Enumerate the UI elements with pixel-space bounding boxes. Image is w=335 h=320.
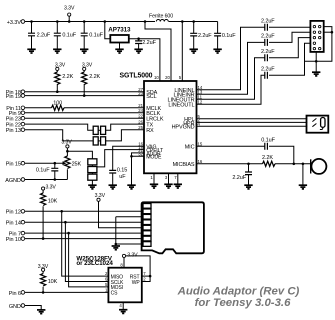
svg-text:2: 2 (143, 277, 146, 282)
wire MIC line (197, 145, 265, 147)
capacitor 2.2uF (VDDA bypass) (190, 22, 212, 50)
wire LINEINL to cap (197, 27, 265, 89)
ground (115, 49, 123, 53)
wire HPL to jack (197, 118, 308, 120)
resistor 10K flash CS pullup (41, 271, 58, 292)
wire MICBIAS (197, 163, 311, 165)
svg-text:SGTL5000: SGTL5000 (120, 73, 153, 80)
wire LINEOUTL to cap (197, 75, 265, 104)
capacitor 2.2uF (rail bypass 1) (28, 22, 51, 50)
svg-text:Pin 15: Pin 15 (6, 162, 21, 168)
capacitor 2.2uF (mic filter) (232, 164, 252, 185)
svg-text:22: 22 (138, 113, 143, 118)
ground (150, 184, 158, 188)
wire SD ground pad3 (116, 217, 143, 246)
junction (149, 275, 152, 278)
wire SGTL pin 20 supply (145, 22, 171, 82)
junction (137, 37, 140, 40)
svg-text:10: 10 (154, 75, 159, 80)
resistor 2.2K SCL pullup (82, 71, 101, 96)
svg-text:2.2uF: 2.2uF (261, 66, 275, 72)
svg-text:2.2uF: 2.2uF (232, 175, 246, 181)
junction (54, 178, 57, 181)
svg-text:1: 1 (150, 175, 153, 180)
svg-text:Pin 13: Pin 13 (6, 128, 21, 134)
svg-text:Audio Adaptor (Rev C): Audio Adaptor (Rev C) (177, 286, 300, 298)
wire Pin14 SCLK to SD (25, 221, 143, 223)
svg-text:0.1uF: 0.1uF (62, 33, 76, 39)
wire ADDR (132, 153, 145, 156)
connector J line in/out header (310, 21, 323, 52)
supply 3.3V for SCL pullup (82, 63, 93, 71)
potentiometer 25K (65, 156, 82, 180)
ground (109, 185, 117, 189)
svg-text:12: 12 (198, 99, 203, 104)
solder pads RX row (93, 137, 105, 145)
svg-text:24: 24 (138, 108, 143, 113)
svg-text:AGND: AGND (5, 178, 21, 184)
wire Pin10 SD chip select (25, 238, 143, 240)
node Pin 14 (6, 220, 25, 226)
node Pin 13 (6, 128, 25, 134)
node Pin 12 (6, 210, 25, 216)
wire Pin15 to pot wiper (25, 162, 63, 164)
junction (293, 163, 296, 166)
SGTL right pin names (167, 88, 194, 168)
wire cap2 to connector row2 (269, 32, 310, 42)
capacitor 0.1uF (VDDA bypass) (214, 22, 236, 50)
junction (302, 163, 305, 166)
wire connector shield to ground (315, 53, 317, 72)
junction (60, 210, 63, 213)
svg-text:0.1uF: 0.1uF (36, 167, 50, 173)
wire MODE to ground (132, 156, 145, 185)
wire TX pads to SGTL TX (105, 124, 144, 130)
svg-text:23: 23 (138, 91, 143, 96)
svg-text:uF: uF (119, 174, 126, 180)
wire SD ground pad8 (116, 243, 143, 245)
supply 3.3V for SD card (95, 193, 106, 202)
svg-text:2.2K: 2.2K (89, 74, 100, 80)
svg-text:2.2uF: 2.2uF (142, 40, 156, 46)
ground (299, 185, 307, 189)
connector SD card (142, 202, 204, 253)
svg-text:CS: CS (111, 291, 119, 297)
svg-text:HPVGND: HPVGND (172, 125, 195, 131)
svg-text:MODE: MODE (146, 155, 162, 161)
junction (67, 232, 70, 235)
svg-text:WP: WP (132, 280, 141, 286)
svg-text:Ferrite 600: Ferrite 600 (149, 14, 173, 20)
capacitor 0.1uF (rail bypass 3) (81, 22, 104, 50)
svg-text:0.15: 0.15 (117, 168, 127, 174)
ground (53, 49, 61, 53)
ground (112, 246, 120, 250)
svg-text:26: 26 (138, 119, 143, 124)
svg-text:RX: RX (146, 128, 154, 134)
capacitor 2.2uF line coupling 4 (261, 66, 275, 78)
wire Pin18 to SDA (25, 91, 144, 93)
wire connector ground return (305, 27, 332, 62)
wire 3.3V rail (25, 21, 218, 23)
svg-text:100: 100 (53, 101, 62, 107)
wire HPR to jack (197, 121, 308, 123)
junction (54, 162, 57, 165)
junction (331, 31, 334, 34)
svg-text:Pin 14: Pin 14 (6, 221, 21, 227)
svg-text:10K: 10K (48, 279, 58, 285)
svg-text:0.1uF: 0.1uF (89, 33, 103, 39)
node GND (9, 304, 25, 310)
svg-text:Pin 10: Pin 10 (6, 237, 21, 243)
node Pin 9 (9, 111, 25, 117)
flash pin numbers (105, 262, 146, 308)
svg-text:2.2uF: 2.2uF (261, 19, 275, 25)
wire Pin23 to LRCLK (25, 117, 144, 119)
ground (190, 49, 198, 53)
wire Pin7 MOSI to SD (25, 232, 143, 234)
svg-text:3: 3 (165, 175, 168, 180)
wire mic return to ground (302, 164, 304, 185)
svg-text:8: 8 (120, 262, 123, 267)
svg-text:Pin 6: Pin 6 (9, 291, 21, 297)
wire Pin22 to TX pads (25, 124, 94, 130)
solder pads ADDR select stack (88, 159, 97, 185)
ground (174, 184, 182, 188)
junction (42, 237, 45, 240)
svg-text:for Teensy 3.0-3.6: for Teensy 3.0-3.6 (195, 297, 291, 309)
ground (244, 185, 252, 189)
ground (213, 49, 221, 53)
wire cap3 to connector row3 (269, 38, 310, 58)
svg-text:2.2uF: 2.2uF (37, 33, 51, 39)
wire VAG (113, 146, 144, 170)
svg-text:3.3V: 3.3V (38, 264, 49, 270)
resistor 2.2K (mic bias) (262, 155, 275, 167)
svg-text:32: 32 (138, 152, 143, 157)
junction (247, 163, 250, 166)
title text (177, 286, 300, 309)
capacitor 0.1uF (rail bypass 2) (54, 22, 77, 50)
supply 3.3V for flash CS pullup (38, 264, 49, 272)
ground (164, 184, 172, 188)
SGTL right pin numbers (198, 85, 203, 164)
SGTL left pin numbers (138, 87, 143, 157)
supply 3.3V for SD CS pullup (42, 185, 57, 191)
wire cap1 to connector row1 (269, 26, 310, 28)
capacitor 2.2uF line coupling 3 (261, 49, 275, 61)
svg-text:0.1uF: 0.1uF (261, 137, 275, 143)
wire 3.3V to ADDR pads (67, 151, 92, 159)
node Pin 15 (6, 161, 25, 167)
resistor 2.2K SDA pullup (55, 71, 74, 92)
capacitor 2.2uF (regulator output) (135, 39, 157, 49)
wire CPFILT to pads (97, 150, 144, 167)
svg-text:2.2K: 2.2K (262, 155, 273, 161)
resistor 10K SD CS pullup (41, 190, 58, 239)
node Pin 6 (9, 291, 25, 297)
svg-text:2.2uF: 2.2uF (198, 33, 212, 39)
junction (83, 94, 86, 97)
ground (88, 185, 96, 189)
node +3.3V input pin (7, 20, 25, 26)
svg-text:3.3V: 3.3V (46, 185, 57, 191)
supply 3.3V symbol on rail (64, 5, 75, 21)
wire connector row2 ground return (324, 31, 332, 33)
SGTL top pin numbers 10 20 5 (154, 75, 182, 80)
wire AGND (25, 179, 68, 181)
node AGND (5, 178, 24, 184)
ground (127, 185, 135, 189)
microphone MK1 (311, 159, 327, 174)
svg-text:10K: 10K (48, 199, 58, 205)
junction dots on rail (30, 20, 195, 23)
inductor Ferrite 600 (149, 14, 173, 22)
SGTL bottom pin 7 (174, 173, 178, 184)
wire HPVGND to jack (197, 125, 308, 127)
svg-text:2.2uF: 2.2uF (261, 49, 275, 55)
ground (37, 310, 45, 314)
node Pin 18 (6, 90, 25, 96)
ground (27, 49, 35, 53)
wire SD VDD (99, 201, 144, 227)
wire LINEOUTR to cap (197, 58, 265, 100)
wire SGTL pin 5 supply (181, 22, 183, 82)
svg-text:7: 7 (174, 175, 177, 180)
wire 3.3V to RST WP (126, 256, 151, 282)
svg-text:3.3V: 3.3V (64, 5, 75, 11)
wire MISO branch to flash (62, 211, 109, 276)
wire Pin6 flash CS (25, 291, 109, 293)
supply 3.3V for SDA pullup (55, 63, 66, 71)
regulator U AP7313 (105, 22, 131, 50)
wire GND (25, 306, 42, 310)
svg-text:GND: GND (9, 304, 21, 310)
wire LINEINR to cap (197, 42, 265, 94)
svg-text:7: 7 (143, 271, 146, 276)
solder pads TX row (93, 126, 105, 134)
junction (315, 60, 318, 63)
ground (312, 72, 320, 76)
supply 3.3V for volume pot (61, 140, 72, 156)
node Pin 11 (6, 106, 24, 112)
capacitor 0.1uF (volume filter) (36, 163, 58, 179)
svg-text:5: 5 (179, 75, 182, 80)
svg-text:AP7313: AP7313 (108, 26, 131, 33)
node Pin 7 (9, 231, 25, 237)
SGTL bottom pin 1 (150, 173, 154, 184)
junction (115, 243, 118, 246)
ground (119, 310, 127, 314)
junction (56, 90, 59, 93)
ground (80, 49, 88, 53)
wire cap4 to connector row4 (269, 43, 310, 75)
capacitor 0.15uF (VAG) (109, 168, 127, 185)
capacitor 0.1uF (mic coupling) (261, 137, 275, 149)
wire Pin13 to RX pads (25, 130, 94, 141)
svg-text:Pin 12: Pin 12 (6, 210, 21, 216)
junction (42, 291, 45, 294)
svg-text:25: 25 (138, 125, 143, 130)
svg-text:25K: 25K (72, 162, 82, 168)
connector headphone jack (307, 116, 329, 133)
op-amp U1 SGTL5000 (120, 73, 197, 174)
svg-text:16: 16 (198, 159, 203, 164)
svg-text:15: 15 (198, 141, 203, 146)
svg-text:MIC: MIC (185, 145, 195, 151)
supply 3.3V for flash (122, 253, 138, 259)
wire Pin19 to SCL (25, 95, 144, 97)
wire mic cap to bias junction (269, 146, 294, 164)
node Pin 10 (6, 237, 25, 243)
junction (64, 221, 67, 224)
svg-text:2.2K: 2.2K (62, 74, 73, 80)
node Pin 19 (6, 94, 25, 100)
SGTL bottom pin 3 (165, 173, 169, 184)
svg-text:2.2uF: 2.2uF (261, 34, 275, 40)
wire SCLK branch to flash (65, 222, 108, 281)
svg-text:4: 4 (119, 303, 122, 308)
wire RST (142, 275, 150, 277)
wire Pin9 to BCLK (25, 112, 144, 114)
wire 3.3V to flash pin8 (123, 258, 125, 268)
svg-text:20: 20 (165, 75, 170, 80)
svg-text:3.3V: 3.3V (95, 193, 106, 199)
ground (134, 49, 142, 53)
junction (66, 150, 69, 153)
wiper arrow (63, 161, 67, 165)
memory U2 W25Q128FV (76, 255, 141, 302)
svg-text:LINEOUTL: LINEOUTL (168, 103, 194, 109)
svg-text:+3.3V: +3.3V (7, 20, 21, 26)
svg-text:SCL: SCL (146, 94, 156, 100)
resistor 100 (MCLK series) (25, 101, 144, 111)
wire Pin12 MISO to SD (25, 210, 143, 212)
svg-text:Pin 19: Pin 19 (6, 94, 21, 100)
wire AP7313 output to SGTL pin 10 (129, 39, 160, 81)
svg-text:0.1uF: 0.1uF (222, 33, 236, 39)
svg-text:MICBIAS: MICBIAS (173, 162, 195, 168)
capacitor 2.2uF line coupling 1 (261, 19, 275, 31)
capacitor 2.2uF line coupling 2 (261, 34, 275, 46)
wire MOSI branch to flash (69, 233, 109, 287)
SGTL left pin names (146, 90, 164, 161)
svg-text:or 23LC1024: or 23LC1024 (76, 260, 113, 267)
junction (130, 155, 133, 158)
node Pin 23 (6, 116, 25, 122)
wire RX pads to SGTL RX (105, 130, 144, 141)
wire flash pin4 ground (122, 302, 124, 309)
node Pin 22 (6, 122, 25, 128)
